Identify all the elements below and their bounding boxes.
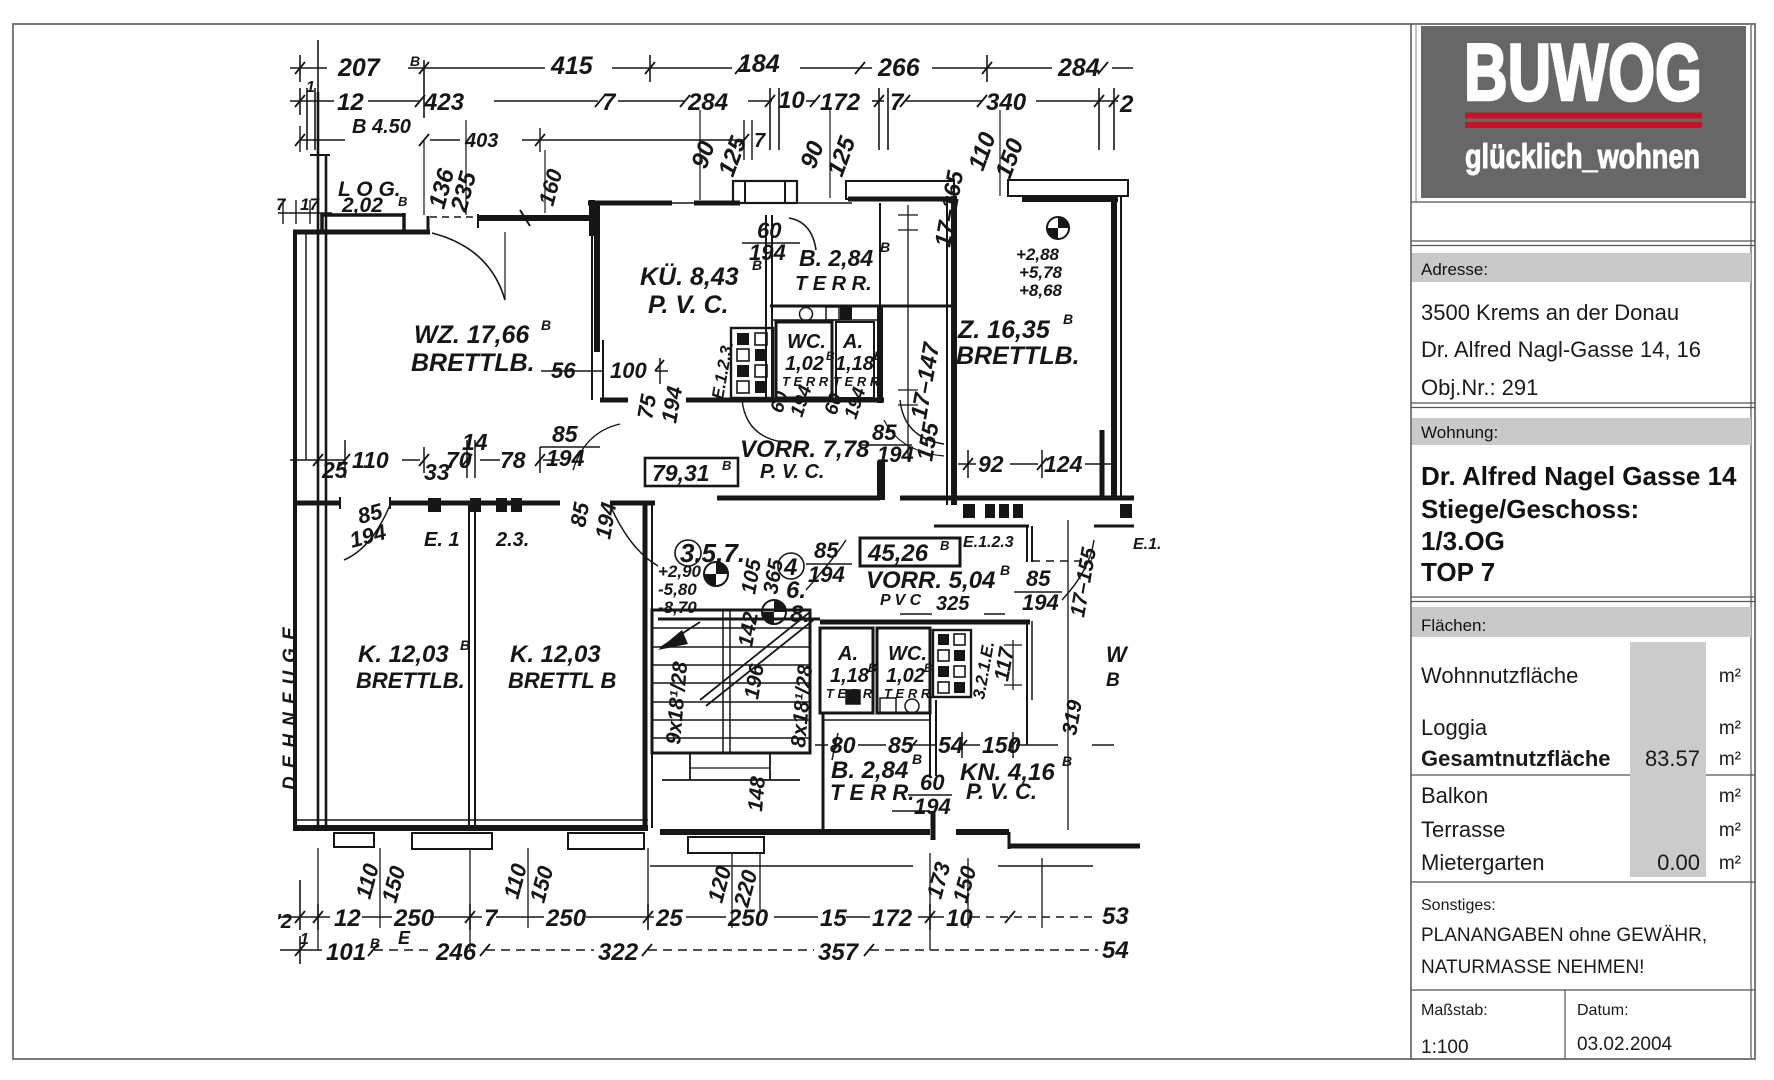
svg-text:W: W bbox=[1106, 642, 1129, 667]
svg-text:196: 196 bbox=[740, 662, 769, 701]
svg-text:7: 7 bbox=[276, 195, 287, 214]
svg-text:DEHNFUGE: DEHNFUGE bbox=[280, 619, 301, 790]
VORR 5,04 label bbox=[866, 562, 1010, 615]
svg-text:340: 340 bbox=[986, 89, 1027, 116]
svg-text:284: 284 bbox=[1057, 54, 1100, 82]
wall from bay to B-room bbox=[795, 199, 956, 203]
85/194 near VORR bbox=[872, 420, 914, 467]
svg-text:-5,80: -5,80 bbox=[658, 580, 697, 599]
B room label bbox=[795, 239, 890, 295]
svg-text:BRETTLB.: BRETTLB. bbox=[411, 349, 535, 377]
3.5.7 circled bbox=[680, 538, 745, 568]
svg-text:250: 250 bbox=[545, 905, 587, 932]
svg-text:WC.: WC. bbox=[888, 643, 927, 665]
svg-text:B: B bbox=[880, 239, 890, 255]
svg-text:8x18¹/28: 8x18¹/28 bbox=[787, 664, 817, 749]
svg-text:WZ. 17,66: WZ. 17,66 bbox=[414, 321, 530, 349]
lower fixtures bbox=[846, 690, 919, 713]
svg-text:P. V. C.: P. V. C. bbox=[648, 291, 729, 319]
svg-text:BUWOG: BUWOG bbox=[1464, 28, 1702, 118]
svg-text:B: B bbox=[541, 317, 551, 333]
VORR. 7,78 label bbox=[740, 436, 870, 483]
svg-text:85: 85 bbox=[565, 500, 594, 529]
svg-text:Gesamtnutzfläche: Gesamtnutzfläche bbox=[1421, 746, 1611, 771]
north wall middle (window parapet) bbox=[478, 210, 592, 228]
svg-text:10: 10 bbox=[778, 87, 805, 114]
svg-text:E. 1: E. 1 bbox=[424, 529, 460, 551]
svg-text:WC.: WC. bbox=[787, 331, 826, 353]
wall between K rooms bbox=[469, 503, 475, 825]
E.1.2.3 labels small bbox=[963, 534, 1161, 553]
svg-text:1,02: 1,02 bbox=[886, 665, 925, 687]
partition KÜ | B bbox=[766, 215, 772, 400]
svg-text:NATURMASSE NEHMEN!: NATURMASSE NEHMEN! bbox=[1421, 957, 1644, 978]
E. 1 2.3. labels bbox=[424, 529, 529, 551]
svg-text:160: 160 bbox=[534, 166, 568, 209]
svg-text:194: 194 bbox=[590, 500, 621, 541]
svg-text:8.: 8. bbox=[790, 601, 810, 628]
svg-text:B: B bbox=[370, 935, 380, 951]
KÜ top wall bbox=[588, 200, 740, 236]
svg-text:+8,68: +8,68 bbox=[1019, 281, 1063, 300]
svg-text:m²: m² bbox=[1719, 718, 1741, 739]
svg-text:284: 284 bbox=[687, 89, 728, 116]
svg-text:2.3.: 2.3. bbox=[495, 529, 529, 551]
stairwell bbox=[652, 610, 810, 780]
svg-text:VORR. 7,78: VORR. 7,78 bbox=[740, 436, 870, 463]
fan symbol Z room bbox=[1047, 217, 1069, 239]
svg-text:246: 246 bbox=[435, 939, 477, 966]
svg-text:T E R R: T E R R bbox=[833, 374, 880, 389]
upper shaft checker grid bbox=[731, 328, 773, 398]
svg-text:B: B bbox=[1106, 670, 1120, 691]
top dimension row 2 (y=101) bbox=[290, 88, 1118, 150]
door arcs on that wall bbox=[344, 505, 390, 560]
svg-text:P. V. C.: P. V. C. bbox=[966, 779, 1037, 804]
156-100 dim bbox=[551, 358, 647, 383]
svg-text:85: 85 bbox=[552, 421, 579, 447]
svg-text:E: E bbox=[398, 928, 411, 948]
svg-text:E.1.2.3: E.1.2.3 bbox=[963, 534, 1014, 551]
svg-text:Sonstiges:: Sonstiges: bbox=[1421, 897, 1496, 914]
60/194 door dim above B bbox=[749, 218, 786, 265]
svg-text:80: 80 bbox=[830, 732, 856, 758]
door dims rotated between upper rooms and VORR bbox=[767, 382, 871, 421]
svg-text:K. 12,03: K. 12,03 bbox=[358, 641, 449, 668]
wohnung block bbox=[1421, 461, 1737, 587]
top wall of K rooms (y=503) with openings bbox=[295, 497, 655, 509]
svg-text:17–155: 17–155 bbox=[1066, 546, 1101, 619]
svg-text:266: 266 bbox=[877, 54, 921, 82]
svg-text:E.1.: E.1. bbox=[1133, 536, 1161, 553]
svg-text:53: 53 bbox=[1102, 903, 1129, 930]
svg-text:B: B bbox=[1063, 311, 1073, 327]
fans bbox=[704, 562, 786, 624]
BUWOG logo box bbox=[1421, 26, 1746, 198]
svg-text:B: B bbox=[874, 349, 883, 363]
svg-text:VORR. 5,04: VORR. 5,04 bbox=[866, 567, 995, 594]
K room labels bbox=[356, 637, 616, 693]
dim tick slashes bbox=[295, 62, 1119, 956]
svg-text:B: B bbox=[1062, 753, 1072, 769]
85/194 right of stair head bbox=[808, 538, 845, 587]
85/194 mid bbox=[546, 421, 585, 471]
svg-text:6.: 6. bbox=[786, 577, 806, 604]
Z room level marks bbox=[1016, 245, 1063, 300]
svg-text:Datum:: Datum: bbox=[1577, 1002, 1629, 1019]
svg-text:Terrasse: Terrasse bbox=[1421, 817, 1505, 842]
wall K2 | stair bbox=[645, 503, 652, 828]
svg-text:194: 194 bbox=[841, 384, 871, 421]
svg-text:148: 148 bbox=[744, 775, 770, 812]
svg-text:319: 319 bbox=[1058, 698, 1087, 737]
svg-text:3500 Krems an der Donau: 3500 Krems an der Donau bbox=[1421, 300, 1679, 325]
svg-text:207: 207 bbox=[337, 54, 381, 82]
svg-text:250: 250 bbox=[727, 905, 769, 932]
svg-text:45,26: 45,26 bbox=[867, 540, 929, 567]
svg-text:2: 2 bbox=[1119, 91, 1134, 118]
svg-text:79,31: 79,31 bbox=[652, 460, 710, 486]
Z room label bbox=[956, 311, 1080, 370]
B room window bay top bbox=[846, 181, 954, 199]
svg-text:m²: m² bbox=[1719, 820, 1741, 841]
svg-text:85: 85 bbox=[888, 732, 915, 758]
WZ room label bbox=[411, 317, 551, 377]
svg-text:54: 54 bbox=[938, 732, 964, 758]
svg-text:14: 14 bbox=[462, 429, 488, 455]
svg-text:54: 54 bbox=[1102, 937, 1129, 964]
svg-text:Obj.Nr.: 291: Obj.Nr.: 291 bbox=[1421, 375, 1538, 400]
stair rotated labels bbox=[662, 661, 817, 813]
svg-text:194: 194 bbox=[347, 519, 389, 553]
svg-text:325: 325 bbox=[936, 593, 970, 615]
black squares on wall bbox=[428, 498, 522, 512]
svg-text:1,18: 1,18 bbox=[830, 665, 870, 687]
svg-text:7: 7 bbox=[602, 89, 617, 116]
title block column separator bbox=[1410, 24, 1412, 1059]
svg-text:1,18: 1,18 bbox=[835, 353, 875, 375]
stair head labels bbox=[658, 562, 702, 617]
stair diagonals + arrow bbox=[658, 612, 816, 706]
75/194 rotated bbox=[632, 384, 687, 425]
corridor bottom wall bbox=[658, 619, 1030, 622]
svg-text:B: B bbox=[1000, 562, 1010, 578]
svg-text:1:100: 1:100 bbox=[1421, 1037, 1469, 1058]
svg-text:85: 85 bbox=[814, 538, 839, 563]
svg-text:Mietergarten: Mietergarten bbox=[1421, 850, 1545, 875]
svg-text:A.: A. bbox=[837, 643, 858, 665]
svg-text:Stiege/Geschoss:: Stiege/Geschoss: bbox=[1421, 494, 1639, 524]
svg-text:172: 172 bbox=[872, 905, 913, 932]
svg-text:B 4.50: B 4.50 bbox=[352, 116, 411, 138]
svg-text:T E R R.: T E R R. bbox=[795, 273, 872, 295]
west outer wall bbox=[295, 230, 306, 825]
svg-text:B: B bbox=[410, 53, 420, 69]
lower WC room bbox=[877, 628, 930, 713]
svg-text:9x18¹/28: 9x18¹/28 bbox=[662, 661, 692, 746]
80 85 54 150 dim line (y=745) bbox=[815, 732, 1114, 760]
svg-text:25: 25 bbox=[655, 905, 683, 932]
svg-text:0.00: 0.00 bbox=[1657, 850, 1700, 875]
svg-text:B: B bbox=[924, 661, 933, 675]
north wall left apartment bbox=[293, 213, 430, 234]
B bottom wall + fixtures bbox=[770, 306, 955, 321]
circled 4, 6, 8 bbox=[783, 554, 810, 628]
svg-text:403: 403 bbox=[464, 130, 498, 152]
79,31 box bbox=[645, 458, 738, 486]
svg-text:m²: m² bbox=[1719, 749, 1741, 770]
svg-text:BRETTLB.: BRETTLB. bbox=[956, 342, 1080, 370]
svg-text:BRETTL B: BRETTL B bbox=[508, 668, 616, 693]
svg-text:1,02: 1,02 bbox=[785, 353, 824, 375]
svg-text:15: 15 bbox=[820, 905, 847, 932]
svg-text:17–147: 17–147 bbox=[905, 340, 944, 421]
svg-text:-8,70: -8,70 bbox=[658, 598, 697, 617]
svg-text:'2: '2 bbox=[276, 911, 292, 933]
neighbour flat labels (cut) bbox=[1106, 642, 1129, 691]
bottom rotated dims bbox=[351, 859, 982, 910]
svg-text:172: 172 bbox=[820, 89, 861, 116]
svg-text:101: 101 bbox=[326, 939, 366, 966]
svg-text:83.57: 83.57 bbox=[1645, 746, 1700, 771]
svg-text:B: B bbox=[912, 751, 922, 767]
svg-text:B: B bbox=[398, 194, 407, 209]
svg-text:Dr. Alfred Nagel Gasse 14: Dr. Alfred Nagel Gasse 14 bbox=[1421, 461, 1737, 491]
svg-text:BRETTLB.: BRETTLB. bbox=[356, 668, 465, 693]
door arc into B room bbox=[789, 218, 816, 250]
svg-text:KÜ. 8,43: KÜ. 8,43 bbox=[640, 262, 739, 291]
title block grid lines bbox=[1411, 202, 1755, 1059]
windows on south wall bbox=[334, 833, 764, 853]
lower A room bbox=[820, 628, 873, 713]
svg-text:60: 60 bbox=[920, 770, 945, 795]
bottom dim row A (y=917) bbox=[280, 880, 1098, 930]
svg-text:194: 194 bbox=[1022, 590, 1059, 615]
svg-text:155: 155 bbox=[911, 419, 943, 462]
svg-text:P. V. C.: P. V. C. bbox=[760, 461, 825, 483]
svg-text:12: 12 bbox=[334, 905, 361, 932]
svg-text:m²: m² bbox=[1719, 786, 1741, 807]
svg-text:B: B bbox=[940, 538, 949, 553]
upper WC room bbox=[776, 322, 832, 398]
svg-text:PLANANGABEN ohne GEWÄHR,: PLANANGABEN ohne GEWÄHR, bbox=[1421, 925, 1707, 946]
svg-text:Flächen:: Flächen: bbox=[1421, 616, 1486, 635]
Z room top parapet + walls bbox=[1008, 180, 1128, 196]
svg-text:Dr. Alfred Nagl-Gasse 14, 16: Dr. Alfred Nagl-Gasse 14, 16 bbox=[1421, 337, 1701, 362]
svg-text:E.1.2.3.: E.1.2.3. bbox=[708, 340, 737, 401]
svg-text:1: 1 bbox=[306, 79, 315, 96]
sonstiges bbox=[1421, 897, 1707, 1058]
svg-text:Z. 16,35: Z. 16,35 bbox=[957, 316, 1051, 344]
svg-text:194: 194 bbox=[546, 445, 585, 471]
wall B|right x880 bbox=[879, 203, 881, 403]
svg-text:Wohnnutzfläche: Wohnnutzfläche bbox=[1421, 663, 1578, 688]
45,26 box bbox=[860, 538, 960, 567]
top dimension row 1 (y=68) bbox=[290, 40, 1133, 118]
svg-text:365: 365 bbox=[759, 557, 788, 596]
svg-text:T E R R.: T E R R. bbox=[830, 780, 914, 805]
svg-text:B: B bbox=[722, 458, 731, 473]
svg-text:125: 125 bbox=[822, 133, 861, 180]
svg-text:TOP 7: TOP 7 bbox=[1421, 557, 1495, 587]
svg-text:415: 415 bbox=[550, 52, 594, 80]
svg-text:B. 2,84: B. 2,84 bbox=[799, 245, 873, 271]
svg-text:78: 78 bbox=[500, 447, 526, 473]
svg-text:P V C: P V C bbox=[880, 592, 922, 609]
svg-text:12: 12 bbox=[337, 89, 364, 116]
svg-text:1/3.OG: 1/3.OG bbox=[1421, 526, 1505, 556]
svg-text:m²: m² bbox=[1719, 853, 1741, 874]
svg-text:+2,88: +2,88 bbox=[1016, 245, 1060, 264]
svg-text:Wohnung:: Wohnung: bbox=[1421, 423, 1498, 442]
svg-text:100: 100 bbox=[610, 358, 647, 383]
svg-text:85: 85 bbox=[1026, 566, 1051, 591]
svg-text:357: 357 bbox=[818, 939, 860, 966]
dehnfuge double wall bbox=[310, 92, 330, 828]
bottom dim row B (y=950) bbox=[280, 936, 1098, 964]
svg-text:150: 150 bbox=[982, 732, 1021, 758]
svg-text:B: B bbox=[826, 349, 835, 363]
KÜ window bay bbox=[733, 181, 797, 203]
85/194 right bbox=[1022, 566, 1059, 615]
corridor walls (VORR 5,04) bbox=[717, 461, 1134, 745]
B.2,84 TERR + 60/194 + KN 4,16 PVC bbox=[830, 751, 1072, 819]
rotated top dims bbox=[424, 128, 1030, 215]
section header bands bbox=[1412, 253, 1751, 637]
svg-text:322: 322 bbox=[598, 939, 639, 966]
85/194 fractions at K-room doors bbox=[347, 498, 621, 553]
address block bbox=[1421, 300, 1701, 400]
flaechen table bbox=[1421, 642, 1741, 877]
right vertical dim column x~908 bbox=[898, 205, 918, 460]
svg-text:423: 423 bbox=[423, 89, 465, 116]
svg-text:194: 194 bbox=[656, 384, 687, 425]
svg-text:m²: m² bbox=[1719, 666, 1741, 687]
svg-text:Maßstab:: Maßstab: bbox=[1421, 1002, 1488, 1019]
svg-text:124: 124 bbox=[1044, 451, 1083, 477]
92 / 124 dim inside Z bbox=[958, 450, 1114, 478]
svg-text:7: 7 bbox=[484, 905, 499, 932]
svg-text:110: 110 bbox=[352, 447, 389, 473]
black squares row near 45,26 bbox=[963, 504, 1132, 518]
door opening dashed + arc bbox=[430, 217, 590, 300]
lower shaft checker bbox=[933, 630, 971, 697]
"B 4.50" + row 3 (y=140) bbox=[352, 116, 766, 152]
svg-text:K. 12,03: K. 12,03 bbox=[510, 641, 601, 668]
svg-text:17–165: 17–165 bbox=[929, 168, 968, 249]
svg-text:Adresse:: Adresse: bbox=[1421, 260, 1488, 279]
svg-text:+5,78: +5,78 bbox=[1019, 263, 1063, 282]
KÜ east wall lower + west wall lower bbox=[592, 203, 603, 400]
svg-text:10: 10 bbox=[946, 905, 973, 932]
svg-text:92: 92 bbox=[978, 451, 1004, 477]
KÜ label bbox=[640, 257, 762, 319]
bottom wall of upper block bbox=[600, 398, 884, 403]
svg-text:A.: A. bbox=[842, 331, 863, 353]
svg-text:Balkon: Balkon bbox=[1421, 783, 1488, 808]
svg-text:1: 1 bbox=[300, 931, 309, 948]
vertical connectors to bottom dims bbox=[318, 848, 1042, 950]
svg-text:03.02.2004: 03.02.2004 bbox=[1577, 1034, 1673, 1055]
svg-text:25: 25 bbox=[321, 457, 349, 483]
svg-text:Loggia: Loggia bbox=[1421, 715, 1488, 740]
loggia top-left bbox=[338, 178, 407, 217]
rotated dims left of stair: 144 / 105 / 165 bbox=[734, 557, 788, 649]
svg-text:142: 142 bbox=[734, 610, 763, 649]
south walls bbox=[293, 820, 1140, 866]
svg-text:glücklich_wohnen: glücklich_wohnen bbox=[1465, 138, 1700, 176]
svg-text:7: 7 bbox=[754, 130, 766, 152]
B/KN room partitions bbox=[823, 700, 936, 840]
svg-text:117: 117 bbox=[990, 645, 1019, 683]
mid dim line y=457 (left part) bbox=[290, 440, 560, 478]
upper A room bbox=[836, 322, 874, 398]
